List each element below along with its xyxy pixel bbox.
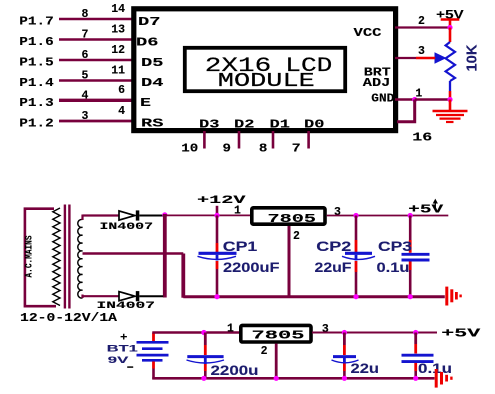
regulator U2 7805 <box>241 325 311 342</box>
capacitor 2200u <box>204 333 207 346</box>
svg-text:11: 11 <box>111 64 125 77</box>
wire center tap <box>83 252 184 255</box>
potentiometer 10K <box>446 42 455 81</box>
capacitor CP3 0.1u <box>409 216 412 241</box>
wire P1.5 to LCD <box>59 59 133 62</box>
svg-text:CP3: CP3 <box>378 239 413 254</box>
svg-text:1: 1 <box>227 322 234 335</box>
svg-text:7805: 7805 <box>252 329 305 342</box>
svg-text:P1.3: P1.3 <box>19 96 54 110</box>
wire D1 cathode <box>139 215 165 217</box>
svg-text:5: 5 <box>82 70 89 83</box>
capacitor 0.1u bottom <box>414 333 417 345</box>
svg-text:6: 6 <box>82 49 89 62</box>
ground symbol LCD <box>449 100 452 111</box>
svg-text:2200u: 2200u <box>211 363 259 378</box>
ground symbol middle right <box>445 287 448 306</box>
battery BT1 <box>152 333 155 342</box>
regulator U1 7805 <box>252 208 325 224</box>
svg-text:D3: D3 <box>199 118 220 132</box>
wire pot bottom <box>449 81 451 91</box>
svg-text:13: 13 <box>111 23 125 36</box>
svg-text:10K: 10K <box>464 44 481 71</box>
wire P1.3 to LCD <box>59 99 133 102</box>
svg-text:2: 2 <box>293 230 300 243</box>
wire ground rail bottom <box>152 377 434 380</box>
pin stub 9 <box>238 131 241 149</box>
svg-text:P1.4: P1.4 <box>19 76 54 90</box>
svg-text:12-0-12V/1A: 12-0-12V/1A <box>20 312 117 325</box>
wire BRT ADJ pin 3 <box>395 57 416 59</box>
LCD module inner box <box>185 48 345 91</box>
svg-text:22uF: 22uF <box>315 260 352 275</box>
wire D2 cathode <box>139 295 163 297</box>
svg-text:+5V: +5V <box>441 328 480 341</box>
node GND junction <box>412 97 417 102</box>
svg-text:D7: D7 <box>138 15 161 29</box>
svg-text:3: 3 <box>322 323 329 336</box>
node VCC junction <box>447 25 452 30</box>
wire VCC pin 2 <box>395 26 450 28</box>
node CP3 top <box>408 213 413 218</box>
svg-text:0.1u: 0.1u <box>377 260 410 275</box>
node CP2 top <box>353 213 358 218</box>
wire pin 16 hook <box>397 100 415 122</box>
pin stub 7 <box>307 131 310 149</box>
svg-text:CP2: CP2 <box>316 239 351 254</box>
node 22u ground <box>342 376 347 381</box>
diode D2 IN4007 <box>119 292 135 301</box>
svg-text:VCC: VCC <box>354 26 382 40</box>
node CP1 ground <box>214 294 219 299</box>
svg-text:BT1: BT1 <box>107 344 139 355</box>
wire pot top <box>449 28 452 43</box>
svg-text:3: 3 <box>82 110 89 123</box>
svg-text:16: 16 <box>412 131 432 145</box>
node rectifier output <box>162 212 167 217</box>
svg-text:D6: D6 <box>136 36 159 50</box>
svg-text:MODULE: MODULE <box>218 70 315 92</box>
wire secondary bottom to D2 <box>83 295 120 297</box>
svg-text:8: 8 <box>82 8 89 21</box>
svg-text:+: + <box>120 332 128 344</box>
svg-text:22u: 22u <box>351 361 380 376</box>
wire GND to pot bottom <box>415 98 450 101</box>
pin stub 10 <box>203 131 206 149</box>
wire secondary top to D1 <box>83 214 120 216</box>
node 22u top <box>342 330 347 335</box>
svg-text:P1.2: P1.2 <box>19 117 54 131</box>
node U2 pin2 ground <box>274 376 279 381</box>
node 0.1u ground <box>413 376 418 381</box>
node +12V tap <box>216 206 219 216</box>
capacitor 22u <box>343 333 346 346</box>
svg-text:3: 3 <box>334 206 341 219</box>
svg-text:IN4007: IN4007 <box>100 222 154 233</box>
svg-text:A.C.MAINS: A.C.MAINS <box>24 236 36 278</box>
svg-text:14: 14 <box>111 3 125 16</box>
svg-text:D0: D0 <box>304 118 325 132</box>
svg-text:12: 12 <box>111 44 125 57</box>
transformer T1 primary loop <box>25 209 56 307</box>
wire U1 pin 2 <box>288 226 291 298</box>
wire rectifier vertical <box>163 214 167 298</box>
svg-text:4: 4 <box>82 90 89 103</box>
pin stub 8 <box>272 131 275 149</box>
svg-text:7805: 7805 <box>268 213 317 226</box>
svg-text:8: 8 <box>259 143 268 156</box>
svg-text:−: − <box>127 361 134 375</box>
svg-text:4: 4 <box>118 105 125 118</box>
svg-text:ADJ: ADJ <box>363 76 391 90</box>
transformer core <box>64 205 66 309</box>
svg-text:CP1: CP1 <box>223 239 258 254</box>
node 2200u ground <box>201 376 206 381</box>
svg-text:GND: GND <box>371 92 394 106</box>
svg-text:RS: RS <box>141 117 164 131</box>
ground symbol bottom right <box>435 369 438 388</box>
wire +5V rail bottom <box>312 332 437 334</box>
LCD module body <box>134 9 396 131</box>
svg-text:D1: D1 <box>270 118 291 132</box>
wire ground rail middle <box>183 295 445 298</box>
svg-text:2: 2 <box>418 15 425 28</box>
node 2200u top <box>201 330 206 335</box>
svg-text:P1.5: P1.5 <box>19 56 54 70</box>
node CP3 ground <box>408 294 413 299</box>
wire P1.7 to LCD <box>59 18 133 21</box>
svg-text:+5V: +5V <box>408 204 443 217</box>
capacitor CP2 22uF <box>355 216 358 241</box>
wire GND pin 1 <box>395 98 415 101</box>
svg-text:6: 6 <box>118 84 125 97</box>
svg-text:D4: D4 <box>141 76 164 90</box>
transformer primary winding <box>53 208 60 306</box>
node pot bottom junction <box>447 97 452 102</box>
wire P1.4 to LCD <box>59 79 133 82</box>
wire P1.6 to LCD <box>59 38 133 41</box>
svg-text:D2: D2 <box>234 118 255 132</box>
svg-text:P1.7: P1.7 <box>19 15 54 29</box>
wire U2 pin 2 <box>275 344 278 380</box>
svg-text:7: 7 <box>292 143 301 156</box>
wire +5V rail middle <box>327 215 449 217</box>
wire +12V rail <box>167 214 252 216</box>
node CP2 ground <box>353 294 358 299</box>
wire battery top rail <box>152 331 240 333</box>
wire P1.2 to LCD <box>59 120 133 123</box>
diode D1 IN4007 <box>119 211 135 220</box>
svg-text:7: 7 <box>82 29 89 42</box>
node 0.1u top <box>413 330 418 335</box>
svg-text:D5: D5 <box>141 56 164 70</box>
svg-text:3: 3 <box>418 45 425 58</box>
svg-text:10: 10 <box>181 143 198 156</box>
svg-text:E: E <box>140 96 151 110</box>
svg-text:P1.6: P1.6 <box>19 35 54 49</box>
svg-text:2: 2 <box>261 345 268 358</box>
transformer secondary winding <box>78 219 83 298</box>
svg-text:2200uF: 2200uF <box>223 260 280 275</box>
svg-text:9: 9 <box>223 143 232 156</box>
svg-text:IN4007: IN4007 <box>97 301 156 312</box>
svg-text:1: 1 <box>234 204 241 217</box>
capacitor CP1 2200uF <box>216 215 219 243</box>
